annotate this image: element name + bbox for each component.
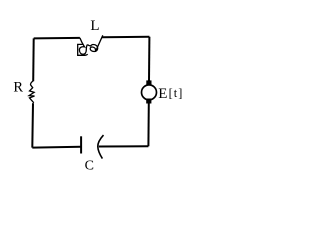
svg-text:L: L <box>90 18 99 34</box>
resistor R1 zigzag <box>29 81 34 103</box>
source E(t) circle <box>142 85 157 100</box>
wire left upper <box>32 38 35 81</box>
wire bottom-right segment <box>99 145 149 147</box>
svg-text:R: R <box>13 80 23 96</box>
source E(t) top terminal square <box>146 80 151 85</box>
wire top-left segment <box>34 37 80 40</box>
wire bottom-left segment <box>32 146 81 149</box>
capacitor C1 left plate <box>80 136 82 153</box>
svg-text:C: C <box>85 159 94 174</box>
inductor L1 frame stroke <box>78 44 88 55</box>
wire right lower <box>147 103 149 146</box>
inductor L1 descender and big loop <box>79 38 87 54</box>
svg-text:E[t]: E[t] <box>158 86 183 102</box>
wire top-right segment <box>102 36 149 38</box>
wire right upper <box>148 37 150 81</box>
inductor L1 small spiral loop and exit <box>88 35 103 51</box>
source E(t) bottom terminal square <box>146 99 151 104</box>
capacitor C1 curved plate <box>98 135 104 159</box>
wire left lower <box>31 103 34 147</box>
